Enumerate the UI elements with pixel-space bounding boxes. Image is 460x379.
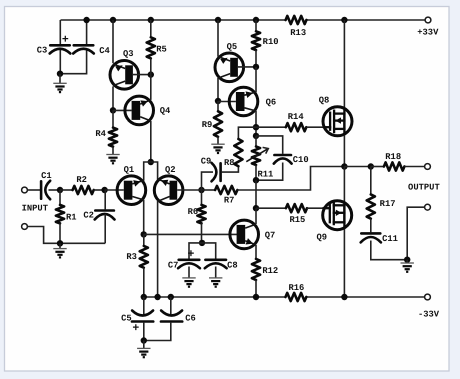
label R17 — [380, 199, 396, 209]
svg-text:+: + — [132, 322, 139, 335]
node tail junction — [148, 159, 154, 165]
svg-text:-33V: -33V — [418, 309, 440, 319]
wire R12 bottom lead — [255, 280, 257, 297]
svg-text:+33V: +33V — [417, 28, 439, 38]
resistor R14 — [286, 123, 307, 131]
wire R9 top lead — [217, 101, 219, 111]
wire C9 left lead — [202, 172, 214, 190]
label Q7 — [265, 231, 276, 241]
wire C6 bottom lead — [144, 323, 171, 341]
svg-text:R17: R17 — [380, 199, 396, 209]
svg-text:Q4: Q4 — [160, 106, 171, 116]
wire input to C1 — [27, 189, 40, 191]
capacitor C10 — [274, 155, 292, 164]
wire Q4 collector — [150, 121, 152, 162]
svg-text:R3: R3 — [126, 252, 137, 262]
wire Q4 base — [113, 109, 132, 111]
ground — [106, 155, 119, 164]
resistor R2 — [73, 186, 94, 194]
node R15-Q7 — [253, 205, 259, 211]
wire ground stub — [143, 341, 145, 349]
label R14 — [288, 112, 305, 122]
node VAS node A — [253, 124, 259, 130]
node R6-C7-C8 tee — [199, 240, 205, 246]
label R10 — [263, 37, 279, 47]
svg-text:C6: C6 — [185, 314, 196, 324]
svg-text:Q8: Q8 — [319, 96, 330, 106]
svg-text:+: + — [62, 33, 69, 46]
label C11 — [382, 234, 398, 244]
wire R9 bottom lead — [217, 137, 219, 144]
label Q5 — [227, 42, 238, 52]
label R1 — [66, 213, 77, 223]
node rail-Q2 — [154, 294, 160, 300]
wire C4 bottom lead — [60, 50, 87, 74]
svg-text:Q9: Q9 — [317, 233, 328, 243]
label INPUT — [22, 203, 49, 213]
svg-text:R14: R14 — [288, 112, 305, 122]
wire C8 ground lead — [215, 267, 217, 278]
svg-text:R16: R16 — [288, 283, 304, 293]
resistor R1 — [56, 205, 64, 224]
svg-text:R1: R1 — [66, 213, 77, 223]
label -33V — [418, 309, 440, 319]
terminal output return — [425, 204, 431, 210]
label R8 — [224, 158, 235, 168]
ground — [137, 348, 150, 357]
wire Q5 base — [238, 66, 256, 68]
wire Q7 collector — [255, 208, 257, 224]
wire R10 top lead — [255, 20, 257, 31]
wire R15 left lead — [256, 207, 286, 209]
label R18 — [385, 152, 401, 162]
ground — [53, 249, 66, 258]
wire R5 bottom lead — [150, 58, 152, 74]
wire +33V rail — [61, 19, 429, 21]
wire R3 bottom lead — [143, 268, 145, 297]
svg-text:R2: R2 — [76, 175, 87, 185]
resistor R3 — [140, 246, 148, 268]
label R13 — [290, 28, 306, 38]
wire R5 top lead — [150, 20, 152, 37]
wire Q3 collector — [112, 86, 114, 110]
node rail-Q9 source — [341, 294, 347, 300]
capacitor C5 — [132, 311, 153, 322]
svg-text:R13: R13 — [290, 28, 306, 38]
wire R7 left lead — [202, 189, 216, 191]
wire output return — [407, 207, 424, 260]
label C2 — [83, 210, 94, 220]
trimmer arrow R11 — [246, 147, 268, 161]
wire R4 bottom lead — [112, 147, 114, 155]
svg-text:Q1: Q1 — [124, 165, 135, 175]
wire Q6 base — [218, 101, 236, 103]
svg-text:C1: C1 — [41, 171, 52, 181]
wire Q6 emitter — [255, 67, 257, 92]
svg-text:Q3: Q3 — [123, 49, 134, 59]
wire Q7 emitter — [255, 245, 257, 259]
svg-text:+: + — [187, 248, 194, 261]
capacitor C7 — [178, 260, 200, 268]
label C10 — [293, 155, 309, 165]
wire C3 bottom lead — [59, 50, 61, 74]
label C6 — [185, 314, 196, 324]
ground — [182, 278, 195, 287]
resistor R10 — [252, 31, 260, 50]
wire R2 left lead — [60, 189, 73, 191]
wire -33V rail — [144, 296, 428, 298]
wire Q4 emitter — [150, 75, 152, 100]
label R2 — [76, 175, 87, 185]
resistor R16 — [286, 293, 307, 301]
wire input return — [27, 227, 105, 244]
svg-text:Q2: Q2 — [165, 165, 176, 175]
polarity + C5 — [132, 322, 139, 335]
wire C1 to node — [49, 189, 61, 191]
wire output node — [344, 166, 370, 168]
resistor R17 — [367, 194, 375, 218]
node output-Q8 — [341, 163, 347, 169]
wire bus segment — [255, 180, 257, 208]
wire R11 top lead — [255, 136, 257, 147]
wire R17 bottom lead — [370, 219, 372, 233]
label C1 — [41, 171, 52, 181]
node output-R17 — [368, 163, 374, 169]
svg-text:C7: C7 — [168, 261, 179, 271]
wire Q9 drain — [343, 167, 345, 202]
svg-text:R9: R9 — [202, 120, 213, 130]
wire C3 top lead — [59, 20, 61, 44]
label Q3 — [123, 49, 134, 59]
node rail-Q5 — [215, 17, 221, 23]
wire Q5 emitter — [217, 20, 219, 57]
wire Q6 collector — [255, 111, 257, 136]
label R6 — [188, 207, 199, 217]
wire R14 to Q8 gate — [306, 126, 324, 128]
label R16 — [288, 283, 304, 293]
label C4 — [99, 46, 110, 56]
polarity + C3 — [62, 33, 69, 46]
node rail-R10 — [253, 17, 259, 23]
node Q1-R3 junction — [141, 231, 147, 237]
wire Q2 base — [177, 189, 201, 191]
wire C5 bottom lead — [143, 323, 145, 341]
wire R2 right lead — [94, 189, 105, 191]
node Q2 base junction — [198, 187, 204, 193]
resistor R15 — [286, 204, 307, 212]
node R1-ground — [57, 240, 63, 246]
wire C4 top lead — [86, 20, 88, 44]
resistor R7 — [215, 186, 237, 194]
label R3 — [126, 252, 137, 262]
node C1-R1-R2 — [57, 187, 63, 193]
wire Q7 base line — [144, 233, 238, 235]
wire R1 top lead — [59, 190, 61, 205]
label R11 — [257, 169, 273, 179]
wire Q8 drain — [343, 20, 345, 108]
wire Q1 collector — [143, 200, 145, 235]
terminal -33V — [425, 294, 431, 300]
node rail-C5 — [141, 294, 147, 300]
node rail-R12 — [253, 294, 259, 300]
node R10-Q5 base-Q6 — [253, 64, 259, 70]
svg-text:C10: C10 — [293, 155, 309, 165]
transistor Q6 — [229, 87, 258, 116]
label C8 — [227, 261, 238, 271]
terminal input hot — [22, 187, 28, 193]
svg-text:Q5: Q5 — [227, 42, 238, 52]
label R5 — [156, 45, 167, 55]
svg-text:C9: C9 — [201, 157, 212, 167]
svg-text:R8: R8 — [224, 158, 235, 168]
capacitor C2 — [95, 211, 115, 220]
transistor Q2 — [154, 176, 183, 205]
svg-text:OUTPUT: OUTPUT — [408, 182, 440, 192]
svg-text:C11: C11 — [382, 234, 398, 244]
transistor Q3 — [110, 61, 139, 90]
capacitor C11 — [361, 233, 381, 242]
transistor Q5 — [215, 53, 244, 82]
wire C9 right lead — [222, 166, 239, 172]
wire ground stub — [406, 260, 408, 263]
terminal OUTPUT — [425, 164, 431, 170]
capacitor C6 — [161, 311, 182, 322]
terminal input return — [22, 224, 28, 230]
resistor R5 — [147, 37, 155, 58]
ground — [401, 263, 414, 272]
wire ground stub — [59, 243, 61, 248]
svg-text:C4: C4 — [99, 46, 110, 56]
capacitor C3 — [50, 45, 71, 53]
node Q3-Q4-R4 — [110, 107, 116, 113]
label R15 — [289, 215, 305, 225]
wire C2 top lead — [104, 190, 106, 209]
capacitor C9 — [212, 163, 221, 182]
wire R4 top lead — [112, 110, 114, 127]
svg-text:R5: R5 — [156, 45, 167, 55]
wire C5 top lead — [143, 297, 145, 315]
mosfet Q8 — [323, 107, 352, 136]
svg-text:Q7: Q7 — [265, 231, 276, 241]
wire C2 bottom lead — [104, 214, 106, 243]
wire R17 top lead — [370, 167, 372, 195]
wire tail to Q1 — [144, 162, 151, 181]
wire C7 ground lead — [188, 267, 190, 278]
wire C6 top lead — [170, 297, 172, 315]
transistor Q1 — [117, 176, 146, 205]
node C3-C4 ground junction — [57, 71, 63, 77]
node Q6 base-R9 — [215, 98, 221, 104]
ground — [209, 278, 222, 287]
wire C7-C8 tee bar — [189, 243, 216, 259]
label C7 — [168, 261, 179, 271]
node rail-C6 — [168, 294, 174, 300]
wire ground stub — [59, 74, 61, 84]
node rail-C4 — [83, 17, 89, 23]
resistor R11 — [252, 147, 260, 166]
capacitor C4 — [73, 45, 94, 53]
node rail-Q8 drain — [341, 17, 347, 23]
node rail-Q3 — [110, 17, 116, 23]
svg-text:C5: C5 — [121, 314, 132, 324]
node R5-Q3 base — [148, 71, 154, 77]
svg-text:R11: R11 — [257, 169, 273, 179]
label Q4 — [160, 106, 171, 116]
wire R18 right lead — [404, 166, 424, 168]
resistor R9 — [214, 111, 222, 137]
label C5 — [121, 314, 132, 324]
wire R6 bottom lead — [201, 223, 203, 243]
svg-text:R7: R7 — [224, 196, 235, 206]
label Q2 — [165, 165, 176, 175]
terminal +33V — [425, 17, 431, 23]
wire R6 top lead — [201, 190, 203, 205]
wire R11 bottom lead — [255, 165, 257, 180]
label R4 — [95, 129, 106, 139]
wire R1 bottom lead — [59, 223, 61, 243]
svg-text:INPUT: INPUT — [22, 203, 49, 213]
node C5-C6 ground — [141, 337, 147, 343]
node rail-R5 — [148, 17, 154, 23]
wire C11 bottom lead — [371, 241, 407, 260]
wire Q2 collector — [157, 201, 159, 297]
wire Q1 base — [105, 189, 124, 191]
resistor R13 — [286, 16, 307, 24]
label R9 — [202, 120, 213, 130]
mosfet Q9 — [323, 201, 352, 230]
node C11-ground — [404, 257, 410, 263]
svg-text:C8: C8 — [227, 261, 238, 271]
svg-text:R6: R6 — [188, 207, 199, 217]
polarity + C7 — [187, 248, 194, 261]
wire feedback — [237, 167, 344, 191]
wire tail to Q2 — [151, 162, 158, 180]
wire Q3 emitter — [112, 20, 114, 63]
label +33V — [417, 28, 439, 38]
resistor R18 — [384, 162, 405, 170]
label C9 — [201, 157, 212, 167]
wire Q9 source — [343, 229, 345, 297]
wire C10 top lead — [256, 136, 283, 154]
transistor Q7 — [230, 220, 259, 249]
wire C10 bottom lead — [256, 163, 283, 181]
label R12 — [262, 266, 278, 276]
node R11-C10 — [253, 177, 259, 183]
resistor R12 — [252, 259, 260, 280]
node VAS node B — [253, 133, 259, 139]
svg-text:Q6: Q6 — [266, 98, 277, 108]
svg-text:C2: C2 — [83, 210, 94, 220]
capacitor C8 — [205, 260, 227, 268]
transistor Q4 — [125, 96, 154, 125]
label Q6 — [266, 98, 277, 108]
capacitor C1 — [41, 181, 50, 200]
label R7 — [224, 196, 235, 206]
label C3 — [37, 46, 48, 56]
label Q9 — [317, 233, 328, 243]
resistor R4 — [109, 128, 117, 147]
wire R8 top lead — [238, 127, 256, 138]
wire R3 top lead — [143, 234, 145, 246]
ground — [211, 144, 224, 153]
svg-text:R15: R15 — [289, 215, 305, 225]
svg-text:R12: R12 — [262, 266, 278, 276]
resistor R6 — [197, 205, 205, 224]
svg-text:R4: R4 — [95, 129, 106, 139]
wire Q8 source — [343, 135, 345, 166]
resistor R8 — [234, 139, 242, 166]
svg-text:C3: C3 — [37, 46, 48, 56]
svg-text:R10: R10 — [263, 37, 279, 47]
label OUTPUT — [408, 182, 440, 192]
label Q8 — [319, 96, 330, 106]
wire R14 left lead — [256, 126, 286, 128]
wire Q3 base — [133, 74, 151, 76]
wire R18 left lead — [371, 166, 384, 168]
wire R15 to Q9 gate — [307, 207, 324, 209]
wire Q5 collector — [217, 78, 219, 101]
svg-text:R18: R18 — [385, 152, 401, 162]
wire R10 bottom lead — [255, 50, 257, 67]
ground — [53, 83, 66, 92]
label Q1 — [124, 165, 135, 175]
node R2-C2-Q1 base — [101, 187, 107, 193]
